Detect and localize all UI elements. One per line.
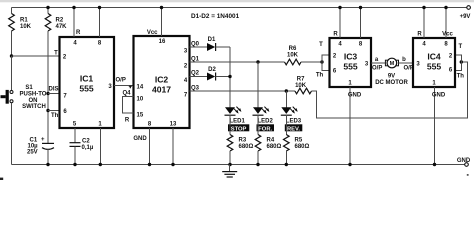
svg-text:b: b bbox=[402, 57, 406, 63]
resistor R4 bbox=[255, 135, 261, 152]
resistor R3 bbox=[227, 135, 233, 152]
node pin13 gnd junction bbox=[171, 163, 174, 166]
pin 4 IC3 bbox=[339, 8, 341, 39]
wire R1 to trigger node bbox=[11, 31, 13, 56]
led LED1 bbox=[225, 107, 235, 114]
wire Q3 to R7 bbox=[190, 90, 295, 92]
svg-text:555: 555 bbox=[79, 84, 94, 94]
svg-text:REV.: REV. bbox=[287, 126, 300, 132]
svg-text:13: 13 bbox=[170, 122, 177, 128]
svg-text:GND: GND bbox=[348, 92, 362, 98]
node GND terminal bbox=[465, 163, 469, 167]
svg-text:IC1: IC1 bbox=[80, 74, 94, 84]
op IC4 555 bbox=[413, 38, 455, 87]
wire R3 to ground rail bbox=[229, 151, 231, 165]
svg-text:R6: R6 bbox=[289, 46, 297, 52]
wire R1 branch vertical bbox=[11, 8, 13, 14]
svg-text:LED2: LED2 bbox=[258, 118, 274, 124]
led LED3 bbox=[281, 107, 291, 114]
svg-text:LED1: LED1 bbox=[230, 118, 246, 124]
resistor R7 bbox=[295, 88, 312, 94]
wire R6 to IC3 trigger bbox=[301, 61, 322, 63]
op IC2 4017 bbox=[134, 36, 190, 128]
clock edge mark IC2 pin14 bbox=[129, 86, 132, 88]
wire motor to IC4 output bbox=[399, 62, 414, 64]
svg-text:S1: S1 bbox=[25, 85, 33, 91]
label STOP bbox=[228, 124, 249, 131]
svg-text:R5: R5 bbox=[295, 138, 303, 144]
svg-text:PUSH-TO-: PUSH-TO- bbox=[20, 91, 49, 97]
wire C2 to ground rail bbox=[74, 146, 76, 164]
svg-text:R1: R1 bbox=[20, 18, 28, 24]
svg-text:O/P: O/P bbox=[116, 78, 126, 84]
scan artifact bottom-left bbox=[0, 178, 3, 180]
wire LED3 to R5 bbox=[285, 115, 287, 134]
wire Q0 to D1 bbox=[190, 46, 208, 48]
wire Q4 feedback loop bbox=[123, 97, 134, 114]
svg-text:15: 15 bbox=[137, 113, 144, 119]
wire IC1 pin1 to ground rail bbox=[99, 128, 101, 165]
wire DIS to IC1 pin7 bbox=[48, 93, 60, 95]
node DIS junction bbox=[46, 92, 49, 95]
svg-text:T: T bbox=[458, 44, 462, 50]
svg-text:16: 16 bbox=[159, 39, 166, 45]
wire IC1 pin5 to C2 bbox=[74, 128, 76, 143]
wire LED2 to R4 bbox=[257, 115, 259, 134]
node D2 join bbox=[228, 75, 231, 78]
svg-text:Q4: Q4 bbox=[123, 91, 132, 97]
wire LED1 to R3 bbox=[229, 115, 231, 134]
node stop gnd junction bbox=[228, 163, 231, 166]
svg-text:9V: 9V bbox=[388, 73, 395, 79]
wire R2 branch vertical bbox=[47, 8, 49, 14]
svg-text:680Ω: 680Ω bbox=[239, 144, 254, 150]
svg-text:O/P: O/P bbox=[372, 66, 382, 72]
resistor R5 bbox=[284, 135, 290, 152]
svg-text:Vcc: Vcc bbox=[147, 30, 158, 36]
svg-text:ON: ON bbox=[29, 98, 38, 104]
svg-text:GND: GND bbox=[432, 92, 446, 98]
wire D2 to stop column bbox=[216, 76, 230, 78]
node Q1 LED2 junction bbox=[256, 60, 259, 63]
capacitor C2 bbox=[70, 142, 81, 144]
svg-text:DC MOTOR: DC MOTOR bbox=[375, 80, 408, 86]
resistor R2 bbox=[45, 14, 51, 32]
wire +9V top rail bbox=[12, 7, 467, 9]
svg-text:M: M bbox=[390, 61, 395, 67]
resistor R6 bbox=[285, 59, 302, 65]
svg-text:SWITCH: SWITCH bbox=[22, 104, 46, 110]
svg-text:680Ω: 680Ω bbox=[267, 144, 282, 150]
svg-text:10: 10 bbox=[137, 97, 144, 103]
wire trigger node to switch bbox=[11, 56, 13, 91]
svg-text:D2: D2 bbox=[208, 67, 216, 73]
op IC1 555 bbox=[60, 37, 115, 128]
wire stop column bbox=[229, 47, 231, 108]
node IC2 gnd junction bbox=[148, 163, 151, 166]
label REV. bbox=[285, 124, 303, 131]
svg-text:Th: Th bbox=[316, 73, 324, 79]
svg-text:R: R bbox=[125, 118, 130, 124]
node forward gnd junction bbox=[256, 163, 259, 166]
wire forward column bbox=[257, 62, 259, 108]
svg-text:C2: C2 bbox=[82, 139, 90, 145]
frame border top strip bbox=[0, 0, 474, 2]
svg-text:555: 555 bbox=[343, 62, 358, 72]
diode D1 bbox=[207, 43, 215, 51]
svg-text:25V: 25V bbox=[27, 150, 38, 156]
svg-text:D1: D1 bbox=[208, 37, 216, 43]
svg-text:GND: GND bbox=[457, 158, 471, 164]
svg-text:STOP: STOP bbox=[231, 126, 247, 132]
svg-text:C1: C1 bbox=[30, 138, 38, 144]
ground earth symbol bbox=[229, 165, 231, 172]
node IC1 gnd junction bbox=[99, 163, 102, 166]
svg-text:R2: R2 bbox=[56, 18, 64, 24]
wire Q1 to R6 bbox=[190, 61, 285, 63]
svg-text:0,1µ: 0,1µ bbox=[82, 145, 94, 151]
svg-text:R4: R4 bbox=[267, 138, 275, 144]
led LED2 bbox=[253, 107, 263, 114]
wire reverse column bbox=[285, 91, 287, 108]
svg-text:4017: 4017 bbox=[152, 85, 171, 95]
wire IC2 pin13 to ground rail bbox=[172, 128, 174, 165]
svg-text:R: R bbox=[333, 31, 338, 37]
node reverse gnd junction bbox=[285, 163, 288, 166]
wire IC4 T-Th bracket bbox=[455, 55, 461, 71]
node IC3 trigger junction bbox=[320, 60, 323, 63]
svg-text:10K: 10K bbox=[20, 24, 32, 30]
label FOR. bbox=[257, 124, 275, 131]
wire IC1 output to IC2 clock bbox=[114, 85, 134, 87]
svg-text:Th: Th bbox=[51, 113, 59, 119]
svg-text:R: R bbox=[417, 31, 422, 37]
svg-text:D1-D2 = 1N4001: D1-D2 = 1N4001 bbox=[191, 13, 240, 20]
wire Th to IC1 pin6 bbox=[48, 110, 60, 112]
svg-text:14: 14 bbox=[137, 85, 144, 91]
svg-text:R: R bbox=[76, 30, 81, 36]
svg-text:47K: 47K bbox=[56, 24, 68, 30]
wire IC3 pin1 to ground rail bbox=[349, 87, 351, 165]
wire R2 down to C1 bbox=[47, 31, 49, 143]
resistor R1 bbox=[9, 14, 15, 32]
svg-text:T: T bbox=[319, 42, 323, 48]
wire trigger to IC1 pin2 bbox=[12, 55, 60, 57]
wire IC3 T-Th bracket bbox=[322, 55, 330, 71]
svg-text:680Ω: 680Ω bbox=[295, 144, 310, 150]
wire R7 loop to IC4 trigger bbox=[312, 62, 468, 118]
pin 8 IC4 bbox=[445, 8, 447, 39]
node R2 top junction bbox=[46, 6, 49, 9]
wire IC4 pin1 to ground rail bbox=[434, 87, 436, 165]
wire D1 to stop column bbox=[216, 46, 230, 48]
wire switch to ground rail bbox=[11, 103, 13, 165]
op IC3 555 bbox=[330, 38, 372, 87]
node IC4 trigger junction bbox=[460, 60, 463, 63]
node C1 ground junction bbox=[46, 163, 49, 166]
wire R4 to ground rail bbox=[257, 151, 259, 165]
svg-text:Vcc: Vcc bbox=[442, 31, 453, 37]
capacitor C1 bbox=[42, 142, 54, 144]
svg-text:IC3: IC3 bbox=[344, 52, 358, 62]
svg-text:T: T bbox=[54, 51, 58, 57]
pin 8 IC1 bbox=[99, 8, 101, 38]
svg-text:IC2: IC2 bbox=[155, 75, 169, 85]
svg-text:555: 555 bbox=[427, 62, 442, 72]
wire ground bottom rail bbox=[12, 164, 465, 166]
switch S1 bbox=[10, 91, 13, 94]
svg-text:Q2: Q2 bbox=[191, 71, 200, 77]
svg-text:Th: Th bbox=[457, 73, 465, 79]
pin 8 IC3 bbox=[360, 8, 362, 39]
scan artifact bottom-right bbox=[467, 174, 469, 176]
svg-text:GND: GND bbox=[133, 136, 147, 142]
wire Q2 to D2 bbox=[190, 76, 208, 78]
svg-text:R7: R7 bbox=[297, 77, 305, 83]
wire IC3 output to motor bbox=[371, 62, 386, 64]
wire IC2 pin8 to ground rail bbox=[149, 128, 151, 165]
svg-text:10K: 10K bbox=[287, 53, 299, 59]
svg-text:DIS: DIS bbox=[48, 87, 58, 93]
svg-text:+: + bbox=[41, 137, 45, 143]
node C2 ground junction bbox=[73, 163, 76, 166]
svg-text:10K: 10K bbox=[295, 83, 307, 89]
svg-text:IC4: IC4 bbox=[427, 52, 441, 62]
node +9V terminal bbox=[467, 6, 471, 10]
wire C1 to ground rail bbox=[47, 149, 49, 165]
node Q3 LED3 junction bbox=[285, 89, 288, 92]
wire R5 to ground rail bbox=[285, 151, 287, 165]
pin 4 IC4 bbox=[423, 8, 425, 39]
svg-text:R3: R3 bbox=[239, 138, 247, 144]
node trigger junction bbox=[10, 54, 13, 57]
node Th junction bbox=[46, 109, 49, 112]
motor M bbox=[385, 60, 388, 66]
diode D2 bbox=[207, 73, 215, 81]
svg-text:LED3: LED3 bbox=[286, 118, 302, 124]
pin 16 IC2 bbox=[161, 8, 163, 37]
pin 4 IC1 bbox=[73, 8, 75, 38]
svg-text:FOR.: FOR. bbox=[258, 126, 272, 132]
svg-text:+9V: +9V bbox=[460, 14, 471, 20]
